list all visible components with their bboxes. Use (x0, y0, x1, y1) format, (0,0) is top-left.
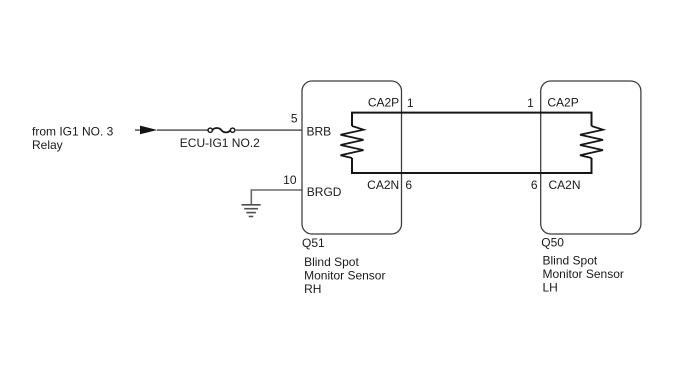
wire: supply tail before arrow (135, 129, 141, 131)
svg-text:BRB: BRB (307, 125, 332, 139)
svg-text:CA2P: CA2P (368, 95, 399, 109)
svg-text:RH: RH (304, 282, 321, 296)
svg-text:Monitor Sensor: Monitor Sensor (543, 267, 624, 281)
connector box Q50 (541, 81, 641, 234)
connector box Q51 (302, 81, 402, 234)
svg-text:6: 6 (531, 178, 538, 192)
wire: arrow tip to fuse (157, 129, 208, 131)
wire: pin 10 (BRGD) to ground drop (251, 190, 302, 204)
arrow: feed from IG1 NO. 3 Relay (140, 126, 157, 135)
label: from IG1 NO. 3 Relay (32, 124, 114, 151)
svg-text:5: 5 (291, 112, 298, 126)
svg-text:1: 1 (407, 96, 414, 110)
svg-text:CA2N: CA2N (367, 178, 399, 192)
svg-text:BRGD: BRGD (307, 185, 342, 199)
ground (242, 205, 261, 217)
resistor: termination inside Q50 (580, 126, 603, 158)
label: Q50 description (543, 254, 624, 295)
svg-text:CA2P: CA2P (547, 95, 578, 109)
resistor: termination inside Q51 (341, 126, 364, 158)
svg-text:10: 10 (283, 173, 297, 187)
svg-text:Blind Spot: Blind Spot (543, 254, 598, 268)
svg-text:Monitor Sensor: Monitor Sensor (304, 268, 385, 282)
svg-text:Q51: Q51 (302, 236, 325, 250)
svg-text:ECU-IG1 NO.2: ECU-IG1 NO.2 (180, 136, 260, 150)
wire: CA2N pair (pin 6 to pin 6) (352, 158, 592, 173)
svg-text:Blind Spot: Blind Spot (304, 255, 359, 269)
label: Q51 description (304, 255, 385, 296)
svg-text:Q50: Q50 (541, 235, 564, 249)
svg-text:from IG1 NO. 3: from IG1 NO. 3 (32, 124, 114, 138)
svg-text:LH: LH (543, 281, 558, 295)
svg-text:1: 1 (527, 96, 534, 110)
wire: fuse to pin 5 (BRB) (235, 129, 302, 131)
fuse ECU-IG1 NO.2 (circle-squiggle-circle) (208, 128, 235, 132)
svg-text:CA2N: CA2N (549, 178, 581, 192)
svg-text:6: 6 (405, 178, 412, 192)
svg-text:Relay: Relay (32, 138, 63, 152)
wire: CA2P pair (pin 1 to pin 1) (352, 113, 592, 126)
